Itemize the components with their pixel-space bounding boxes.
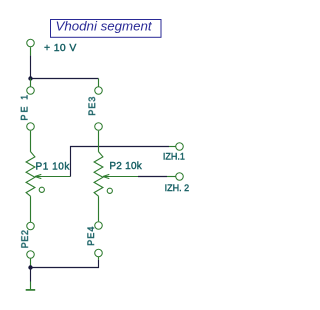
svg-text:PE4: PE4 bbox=[86, 225, 96, 245]
wire: +10V pad stub (green) bbox=[30, 47, 32, 55]
wire: IZH.1 stub (green) bbox=[169, 146, 176, 148]
wire: ground rail horizontal (navy) bbox=[31, 260, 99, 268]
wire: stub to PE1 pad (green) bbox=[30, 79, 32, 87]
P2 mark o bbox=[107, 188, 112, 193]
svg-text:PE 1: PE 1 bbox=[19, 93, 29, 121]
junction: +10V rail bbox=[28, 76, 32, 80]
junction: ground rail bbox=[28, 265, 32, 269]
wire: pad to P2 (green) bbox=[98, 131, 100, 152]
connector pad PE2 bbox=[27, 222, 35, 230]
svg-text:PE2: PE2 bbox=[20, 229, 30, 248]
connector pad PE4 bbox=[95, 222, 103, 230]
connector pad P2 top bbox=[95, 123, 103, 131]
P1 mark o bbox=[39, 187, 44, 192]
svg-text:P2 10k: P2 10k bbox=[109, 161, 142, 172]
frame: title box bbox=[51, 20, 162, 38]
connector pad PE4 lower bbox=[95, 249, 103, 257]
connector pad PE1 bbox=[27, 87, 35, 95]
wire: pad to P1 (green) bbox=[30, 131, 32, 152]
wire: junction to ground (navy) bbox=[30, 268, 32, 282]
wire: IZH.2 net (navy) bbox=[138, 176, 167, 178]
terminal pad IZH.1 bbox=[176, 143, 184, 151]
connector pad P1 top bbox=[27, 123, 35, 131]
wire: stub to PE3 pad (green) bbox=[98, 79, 100, 87]
wire: P2 bottom to PE4 (green) bbox=[98, 196, 100, 221]
wire: PE2 lower stub (green) bbox=[30, 259, 32, 267]
wire: +10V rail horizontal (navy) bbox=[31, 78, 99, 80]
wire: P1 bottom to PE2 (green) bbox=[30, 196, 32, 222]
wire: +10V net vertical (navy) bbox=[30, 56, 32, 79]
svg-text:IZH.1: IZH.1 bbox=[163, 151, 185, 161]
ground bbox=[30, 282, 32, 290]
potentiometer P2 body bbox=[94, 152, 103, 197]
terminal pad IZH.2 bbox=[176, 173, 184, 181]
connector pad PE3 bbox=[95, 87, 103, 95]
connector pad PE2 lower bbox=[27, 251, 35, 259]
wire: P1 wiper riser (navy) bbox=[71, 147, 170, 177]
svg-text:+ 10 V: + 10 V bbox=[44, 43, 77, 54]
wire: PE4 lower stub (green) bbox=[98, 257, 100, 260]
wire: IZH.2 stub (green) bbox=[167, 176, 176, 178]
potentiometer P1 body bbox=[26, 152, 35, 197]
potentiometer P1 wiper arrow bbox=[35, 174, 71, 178]
svg-text:IZH. 2: IZH. 2 bbox=[165, 183, 190, 193]
svg-text:Vhodni segment: Vhodni segment bbox=[56, 18, 153, 33]
svg-text:P1 10k: P1 10k bbox=[36, 161, 71, 172]
svg-text:PE3: PE3 bbox=[87, 96, 97, 116]
terminal pad +10V bbox=[27, 39, 35, 47]
potentiometer P2 wiper arrow bbox=[103, 174, 138, 178]
